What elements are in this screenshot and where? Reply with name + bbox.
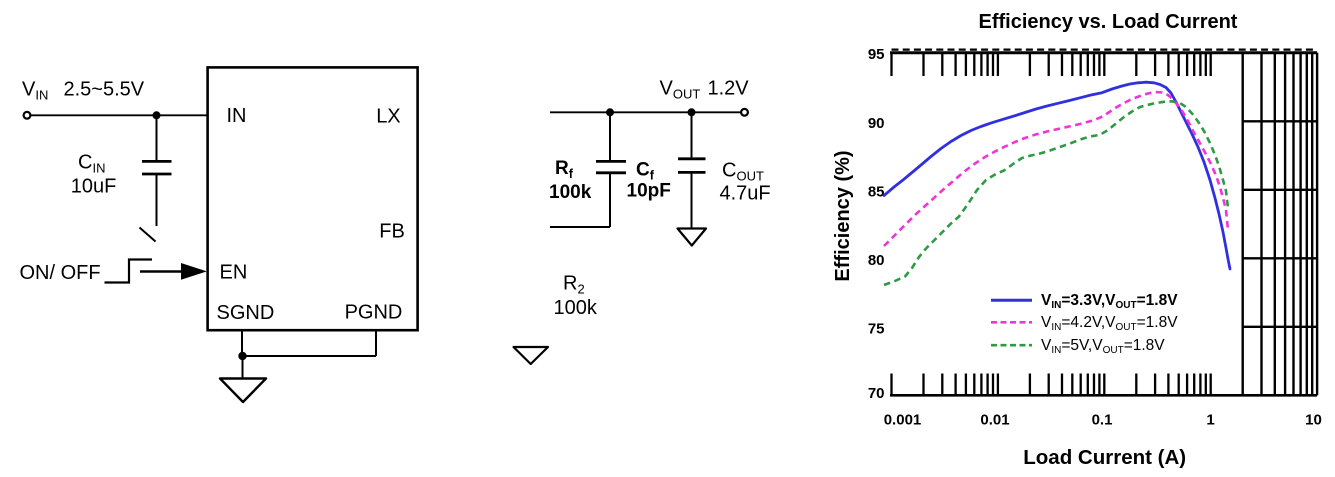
svg-text:10: 10 xyxy=(1305,411,1322,428)
input terminal xyxy=(24,112,31,119)
capacitor COUT xyxy=(678,112,706,227)
svg-text:0.1: 0.1 xyxy=(1092,411,1113,428)
svg-text:90: 90 xyxy=(868,115,885,132)
svg-text:80: 80 xyxy=(868,252,885,269)
capacitor CIN xyxy=(142,115,172,226)
wire feedback bottom xyxy=(550,226,610,228)
node Cf junction xyxy=(606,108,614,116)
svg-text:100k: 100k xyxy=(549,182,592,203)
svg-text:4.7uF: 4.7uF xyxy=(720,183,771,205)
node ground junction xyxy=(238,352,246,360)
plot bottom border xyxy=(890,394,1317,397)
svg-text:ON/ OFF: ON/ OFF xyxy=(20,262,101,284)
svg-text:85: 85 xyxy=(868,183,885,200)
node VIN/CIN junction xyxy=(153,111,161,119)
svg-text:70: 70 xyxy=(868,385,885,402)
curve VIN=5V (green dashed) xyxy=(884,101,1228,285)
svg-text:EN: EN xyxy=(220,262,248,284)
svg-text:PGND: PGND xyxy=(345,302,403,324)
legend sample green xyxy=(991,344,1032,347)
svg-text:75: 75 xyxy=(868,320,885,337)
vertical gridlines 2..10 A xyxy=(1243,53,1317,396)
x minor ticks (bottom row) xyxy=(892,374,1211,395)
ground symbol (main) xyxy=(220,379,266,403)
wire PGND stub xyxy=(375,330,377,356)
x minor ticks (top row) xyxy=(892,54,1211,76)
svg-text:VIN=3.3V,VOUT=1.8V: VIN=3.3V,VOUT=1.8V xyxy=(1041,292,1178,311)
horizontal gridlines (right section) xyxy=(1243,121,1317,326)
plot top border xyxy=(890,51,1317,54)
svg-text:10pF: 10pF xyxy=(627,181,671,202)
svg-text:Efficiency vs. Load Current: Efficiency vs. Load Current xyxy=(979,11,1238,33)
dashed 95% gridline xyxy=(892,48,1318,50)
svg-text:Efficiency (%): Efficiency (%) xyxy=(832,150,854,281)
switch (open) below CIN xyxy=(140,228,156,242)
legend sample magenta xyxy=(991,321,1032,324)
svg-text:IN: IN xyxy=(227,105,247,127)
svg-text:SGND: SGND xyxy=(217,302,275,324)
svg-text:VIN=4.2V,VOUT=1.8V: VIN=4.2V,VOUT=1.8V xyxy=(1041,314,1178,333)
wire/arrow into EN xyxy=(140,270,186,272)
arrowhead EN xyxy=(181,263,207,280)
svg-text:10uF: 10uF xyxy=(71,176,117,198)
curve VIN=4.2V (magenta dashed) xyxy=(884,92,1228,246)
capacitor Cf xyxy=(596,112,626,227)
svg-text:LX: LX xyxy=(376,106,400,128)
on/off rising-edge symbol xyxy=(105,260,153,283)
wire SGND stub xyxy=(241,330,243,356)
svg-text:95: 95 xyxy=(868,46,885,63)
svg-text:100k: 100k xyxy=(554,297,598,319)
wire VIN to IN pin xyxy=(31,114,209,116)
wire junction to ground xyxy=(242,356,244,378)
ground symbol (R2 net) xyxy=(514,347,549,364)
curve VIN=3.3V (blue) xyxy=(884,82,1230,269)
svg-text:1: 1 xyxy=(1206,411,1214,428)
wire VOUT rail xyxy=(550,111,742,113)
svg-text:Load Current (A): Load Current (A) xyxy=(1023,446,1186,469)
ground symbol (COUT) xyxy=(678,229,707,246)
node COUT junction xyxy=(688,108,696,116)
svg-text:FB: FB xyxy=(379,221,405,243)
wire ground bus xyxy=(242,355,376,357)
svg-text:0.001: 0.001 xyxy=(884,411,922,428)
svg-text:0.01: 0.01 xyxy=(980,411,1009,428)
op-amp U1 (converter IC body) xyxy=(208,67,418,330)
legend sample blue xyxy=(991,299,1032,302)
output terminal xyxy=(741,109,748,116)
